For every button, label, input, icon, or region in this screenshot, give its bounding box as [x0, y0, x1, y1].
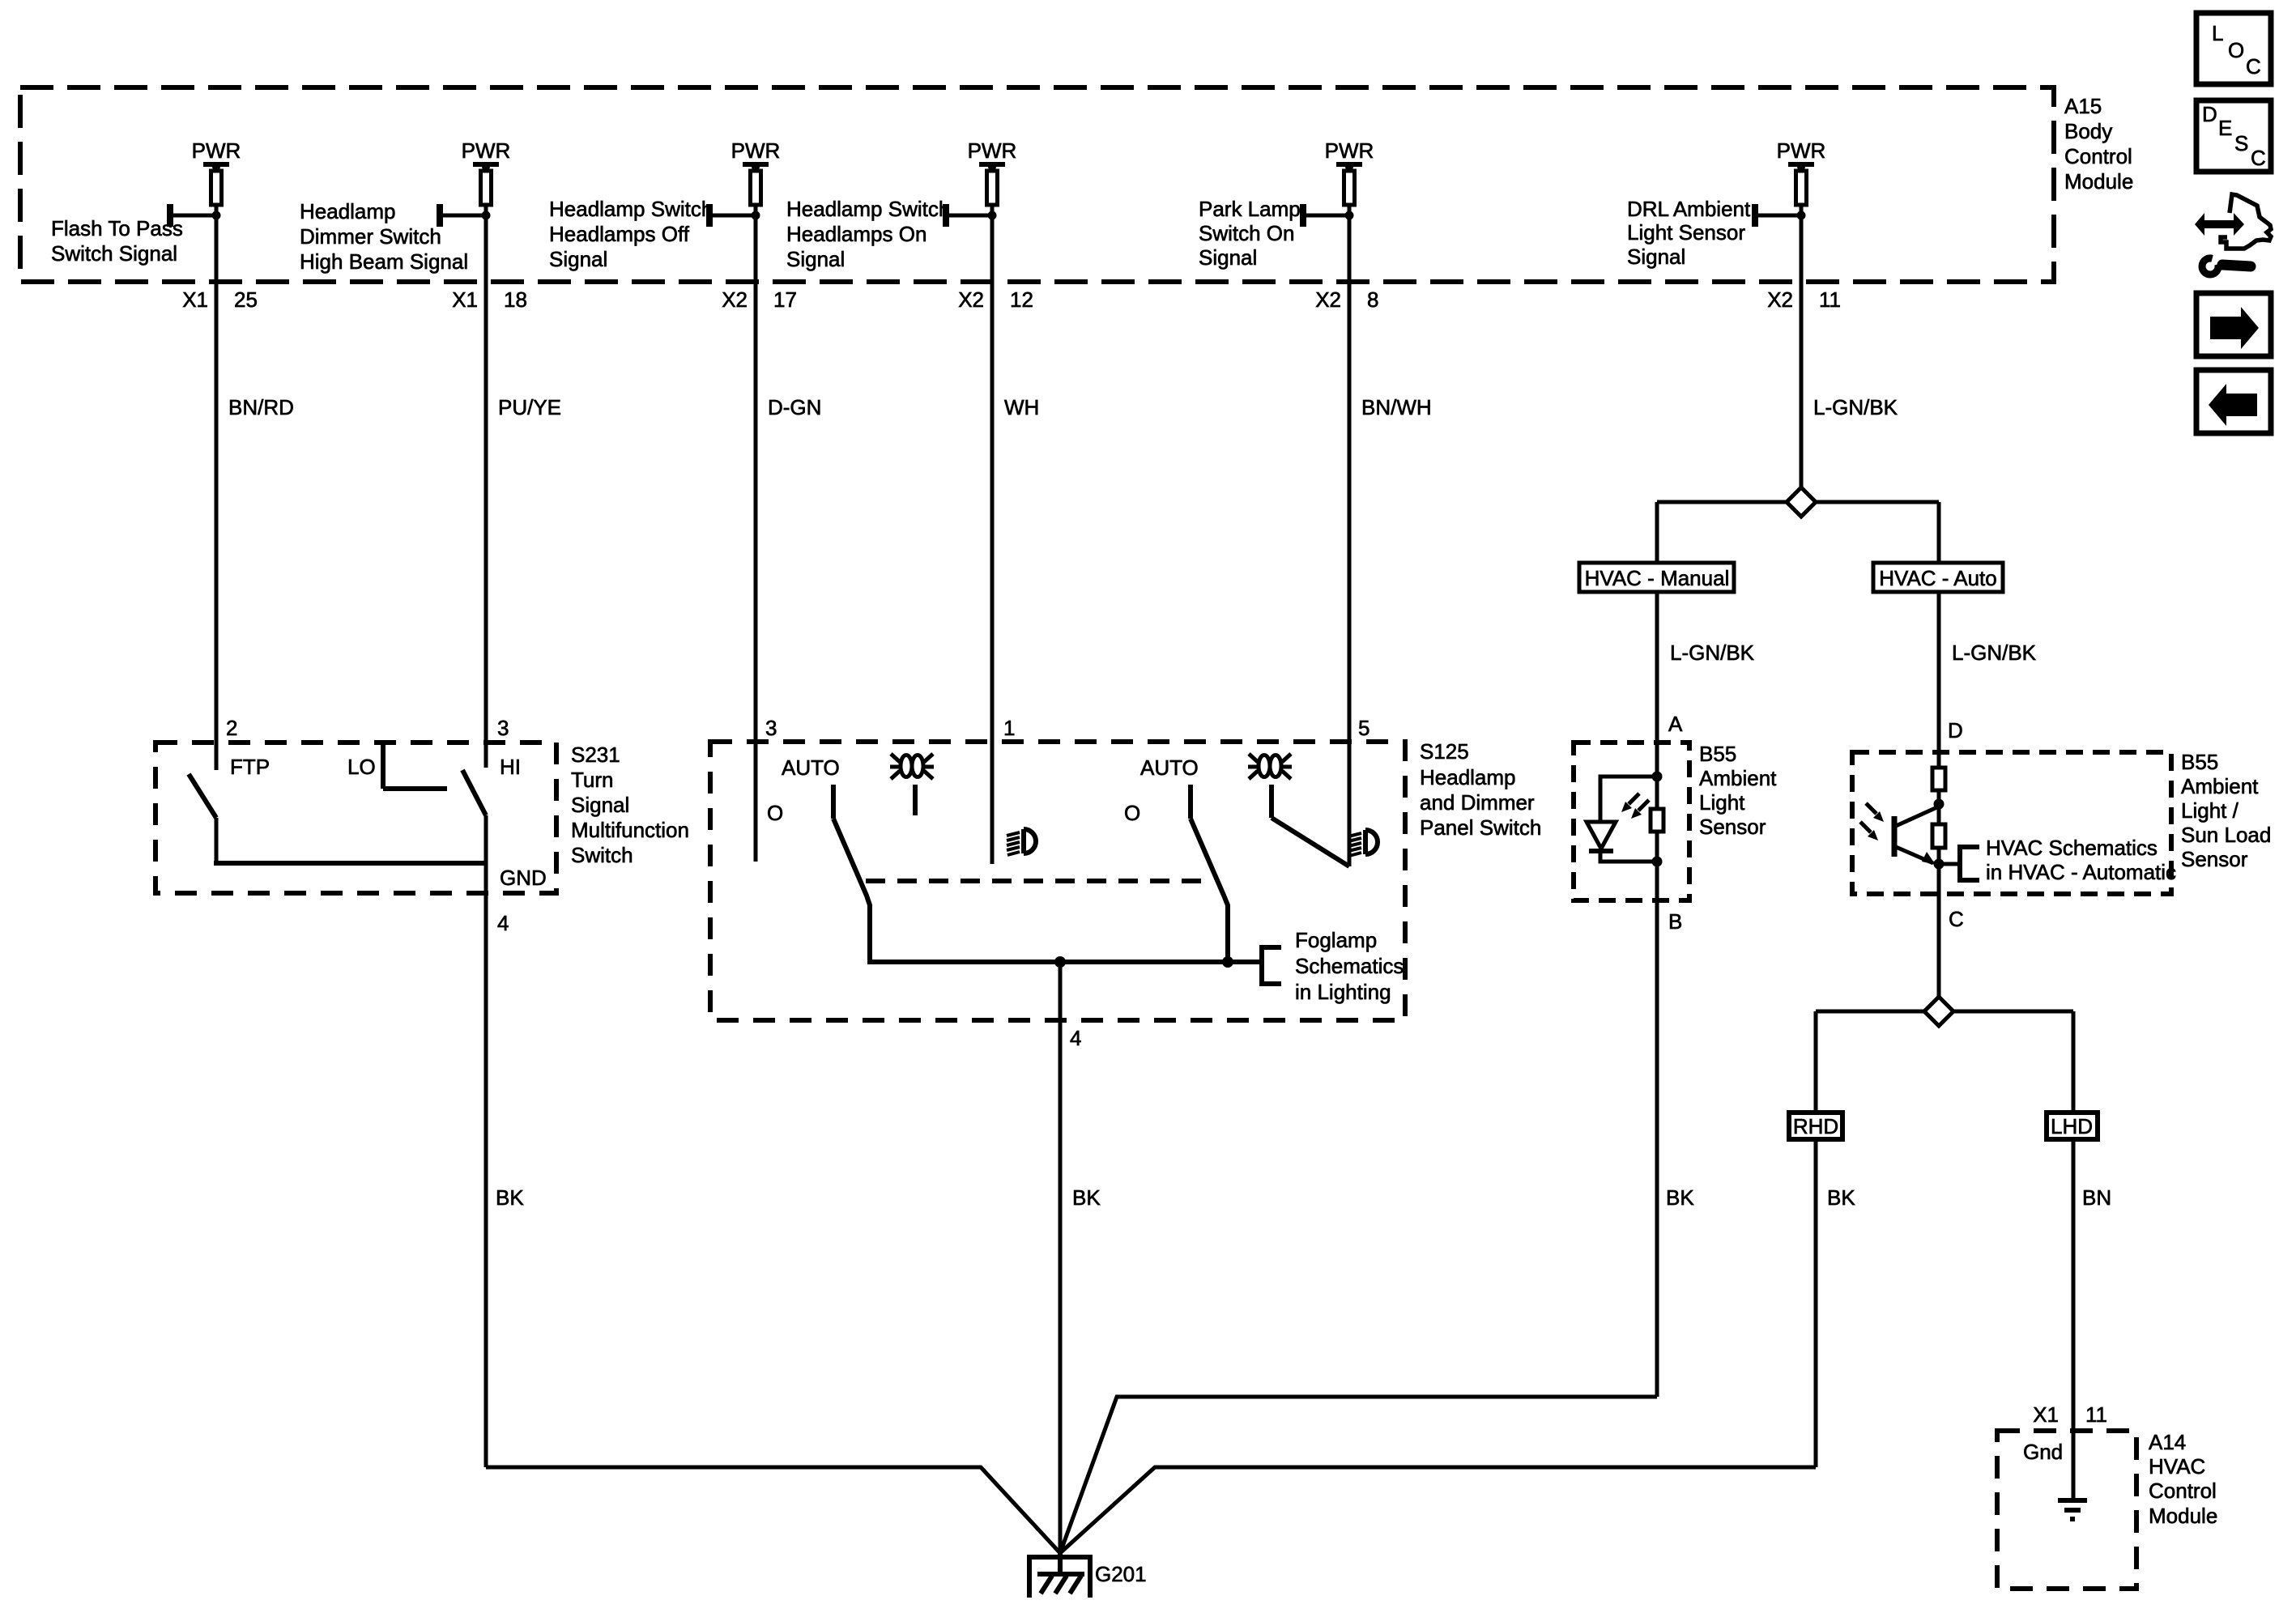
- svg-text:AUTO: AUTO: [1140, 755, 1199, 780]
- svg-text:O: O: [1124, 801, 1140, 825]
- svg-text:X2: X2: [1315, 287, 1341, 312]
- svg-text:D-GN: D-GN: [768, 395, 821, 419]
- wire B55 BK to G201: [1060, 1397, 1657, 1553]
- module box A15 Body Control Module (dashed): [20, 87, 2054, 282]
- power feed PWR column 6: [1627, 138, 1898, 491]
- svg-text:Control: Control: [2064, 144, 2132, 168]
- svg-text:B55: B55: [1699, 742, 1736, 766]
- svg-text:Headlamp: Headlamp: [1420, 765, 1516, 789]
- wire FTP pole down: [215, 818, 219, 863]
- wire common bus S125: [867, 960, 1262, 964]
- off-page bracket to HVAC Schematics: [1939, 862, 1960, 866]
- svg-text:BN/WH: BN/WH: [1361, 395, 1432, 419]
- svg-text:Signal: Signal: [1199, 245, 1257, 270]
- fuse F4: [987, 171, 998, 205]
- contact stub under parking lamp right: [1269, 785, 1274, 818]
- label B55 Ambient Light Sensor: [1699, 742, 1777, 839]
- svg-text:WH: WH: [1004, 395, 1039, 419]
- junction dot A-side top: [1652, 772, 1663, 782]
- wire c5 vertical: [1348, 205, 1352, 866]
- headlamp icon left: [1007, 829, 1036, 855]
- wire c3 vertical: [754, 205, 758, 862]
- phototransistor Q1: [1894, 806, 1939, 865]
- svg-text:C: C: [1949, 907, 1964, 931]
- icon box right arrow: [2196, 293, 2271, 356]
- wire RHD branch: [1814, 1011, 1818, 1113]
- svg-text:Sun Load: Sun Load: [2181, 823, 2271, 847]
- contact stub under parking lamp left: [913, 785, 918, 815]
- svg-text:Turn: Turn: [571, 768, 614, 792]
- svg-text:L-GN/BK: L-GN/BK: [1813, 395, 1898, 419]
- splice diamond lower: [1816, 1010, 2073, 1014]
- connector tick c4: [946, 214, 992, 218]
- svg-text:D: D: [1948, 718, 1963, 743]
- svg-text:S231: S231: [571, 743, 620, 767]
- switch blade HI (open): [462, 770, 486, 815]
- svg-text:Signal: Signal: [549, 247, 607, 271]
- junction dot pin4 bus: [1054, 956, 1066, 968]
- svg-text:E: E: [2218, 116, 2232, 140]
- switch blade parklamp to pin 5 (closed): [1272, 818, 1349, 866]
- mechanical coupling dashed link: [866, 879, 1206, 883]
- svg-text:A14: A14: [2149, 1430, 2186, 1454]
- svg-text:LHD: LHD: [2051, 1114, 2093, 1138]
- svg-text:Flash To Pass: Flash To Pass: [51, 216, 183, 240]
- contact AUTO stub right: [1188, 785, 1193, 819]
- svg-text:Headlamps On: Headlamps On: [786, 222, 926, 246]
- wire S231 BK to G201: [486, 1467, 1060, 1553]
- svg-text:Switch Signal: Switch Signal: [51, 241, 177, 266]
- photodiode D1: [1587, 822, 1616, 849]
- resistor in B55 left: [1651, 809, 1663, 832]
- svg-text:17: 17: [773, 287, 797, 312]
- svg-text:Module: Module: [2149, 1504, 2217, 1528]
- svg-text:O: O: [767, 801, 783, 825]
- svg-text:HVAC - Auto: HVAC - Auto: [1879, 566, 1996, 590]
- option tag HVAC - Auto: [1873, 563, 2003, 592]
- wire GND pin 4 down: [484, 815, 488, 1467]
- svg-text:Headlamps Off: Headlamps Off: [549, 222, 690, 246]
- junction dot right pole bus: [1222, 956, 1233, 968]
- wire left branch to B55 and down: [1655, 592, 1659, 1397]
- wire c6 vertical: [1800, 205, 1804, 491]
- svg-text:C: C: [2251, 146, 2266, 170]
- svg-text:FTP: FTP: [230, 755, 270, 779]
- svg-text:HVAC Schematics: HVAC Schematics: [1986, 836, 2158, 860]
- svg-text:LO: LO: [347, 755, 376, 779]
- wire pin 4 down to ground: [1059, 962, 1063, 1555]
- svg-text:Light Sensor: Light Sensor: [1627, 220, 1745, 245]
- svg-text:Signal: Signal: [786, 247, 845, 271]
- connector tick c6: [1755, 214, 1801, 218]
- svg-text:DRL Ambient: DRL Ambient: [1627, 197, 1751, 221]
- svg-text:Park Lamp: Park Lamp: [1199, 197, 1301, 221]
- svg-text:HI: HI: [500, 755, 521, 779]
- fuse F6: [1796, 171, 1807, 205]
- parking lamp icon left: [890, 754, 934, 779]
- sensor box B55 Ambient Light / Sun Load Sensor (dashed): [1852, 752, 2171, 894]
- svg-text:Schematics: Schematics: [1295, 954, 1404, 978]
- svg-text:L-GN/BK: L-GN/BK: [1952, 640, 2037, 665]
- svg-text:PWR: PWR: [968, 138, 1017, 163]
- svg-text:S125: S125: [1420, 739, 1469, 764]
- junction dot A-side bottom: [1652, 857, 1663, 867]
- svg-text:PWR: PWR: [731, 138, 781, 163]
- connector tick c2: [440, 214, 486, 218]
- power feed PWR column 4: [786, 138, 1039, 864]
- svg-text:X2: X2: [1767, 287, 1793, 312]
- light arrows into photodiode: [1621, 794, 1649, 819]
- svg-text:2: 2: [226, 716, 237, 740]
- icon box DESC: [2196, 100, 2271, 172]
- photodiode branch loop: [1600, 777, 1657, 862]
- off-page bracket to Foglamp Schematics: [1262, 947, 1281, 984]
- svg-text:BN: BN: [2082, 1185, 2111, 1210]
- svg-text:Sensor: Sensor: [1699, 815, 1766, 839]
- svg-text:3: 3: [765, 716, 777, 740]
- wire c2 vertical: [484, 205, 488, 768]
- svg-text:11: 11: [1819, 287, 1841, 312]
- svg-text:Body: Body: [2064, 119, 2112, 143]
- svg-text:8: 8: [1367, 287, 1378, 312]
- label B55 Ambient Light / Sun Load Sensor: [2181, 750, 2271, 871]
- svg-text:A15: A15: [2064, 94, 2102, 118]
- svg-text:High Beam Signal: High Beam Signal: [300, 249, 468, 274]
- sensor box B55 Ambient Light Sensor (dashed): [1574, 743, 1689, 900]
- svg-text:1: 1: [1003, 716, 1015, 740]
- svg-text:PWR: PWR: [192, 138, 241, 163]
- contact LO stub: [381, 743, 386, 789]
- wire S231 common to GND: [214, 861, 486, 866]
- svg-text:PWR: PWR: [462, 138, 511, 163]
- switch blade FTP (open): [189, 774, 216, 818]
- svg-text:G201: G201: [1095, 1562, 1147, 1586]
- svg-text:Gnd: Gnd: [2023, 1440, 2063, 1464]
- wire c1 vertical: [215, 205, 219, 770]
- svg-text:11: 11: [2085, 1402, 2107, 1427]
- connector tick c3: [709, 214, 756, 218]
- svg-text:AUTO: AUTO: [782, 755, 840, 780]
- switch blade right pole: [1191, 819, 1228, 962]
- option tag LHD: [2047, 1113, 2098, 1139]
- connector tick c5: [1303, 214, 1349, 218]
- svg-text:Multifunction: Multifunction: [571, 818, 689, 842]
- switch box S231 Turn Signal Multifunction Switch (dashed): [155, 743, 556, 893]
- svg-text:Signal: Signal: [1627, 245, 1685, 269]
- svg-text:B: B: [1668, 909, 1682, 934]
- svg-text:Foglamp: Foglamp: [1295, 928, 1377, 952]
- ground symbol in A14: [2058, 1500, 2087, 1519]
- svg-text:X1: X1: [2033, 1402, 2059, 1427]
- svg-text:Control: Control: [2149, 1479, 2217, 1503]
- svg-text:RHD: RHD: [1793, 1114, 1838, 1138]
- svg-text:5: 5: [1358, 716, 1370, 740]
- svg-text:Switch: Switch: [571, 843, 633, 867]
- connector tick c1: [170, 214, 216, 218]
- svg-text:BK: BK: [1666, 1185, 1694, 1210]
- svg-text:HVAC: HVAC: [2149, 1454, 2205, 1479]
- svg-text:O: O: [2228, 38, 2244, 62]
- icon box left arrow: [2196, 370, 2271, 433]
- junction dot emitter: [1934, 859, 1945, 870]
- switch blade left pole: [833, 819, 870, 962]
- svg-text:X1: X1: [182, 287, 208, 312]
- svg-text:4: 4: [1070, 1026, 1081, 1050]
- svg-text:BN/RD: BN/RD: [228, 395, 294, 419]
- option tag RHD: [1789, 1113, 1842, 1139]
- wire left branch down to HVAC-Manual: [1655, 502, 1659, 563]
- svg-text:PU/YE: PU/YE: [498, 395, 561, 419]
- svg-text:BK: BK: [1827, 1185, 1855, 1210]
- splice diamond upper: [1787, 487, 1816, 517]
- power feed PWR column 1: [51, 138, 294, 770]
- svg-text:X1: X1: [452, 287, 478, 312]
- svg-text:Light: Light: [1699, 790, 1745, 815]
- wire right branch down to diamond 2: [1937, 592, 1941, 998]
- svg-text:25: 25: [234, 287, 258, 312]
- svg-text:Dimmer Switch: Dimmer Switch: [300, 224, 441, 249]
- svg-text:Panel Switch: Panel Switch: [1420, 815, 1541, 840]
- svg-text:GND: GND: [500, 866, 547, 890]
- svg-text:B55: B55: [2181, 750, 2218, 774]
- power feed PWR column 5: [1199, 138, 1432, 866]
- icon box LOC: [2196, 13, 2271, 84]
- label A15 Body Control Module: [2064, 94, 2133, 194]
- switch box S125 Headlamp and Dimmer Panel Switch (dashed): [710, 742, 1405, 1020]
- svg-text:PWR: PWR: [1325, 138, 1374, 163]
- svg-text:X2: X2: [958, 287, 984, 312]
- light arrows into phototransistor: [1860, 803, 1884, 840]
- svg-text:Headlamp: Headlamp: [300, 199, 396, 223]
- svg-text:4: 4: [497, 911, 509, 935]
- svg-text:S: S: [2234, 131, 2248, 155]
- fuse F3: [751, 171, 761, 205]
- svg-text:A: A: [1668, 712, 1683, 736]
- svg-text:in Lighting: in Lighting: [1295, 980, 1391, 1004]
- parking lamp icon right: [1248, 754, 1292, 779]
- svg-text:Signal: Signal: [571, 793, 629, 817]
- svg-text:L: L: [2212, 21, 2223, 45]
- svg-text:Headlamp Switch: Headlamp Switch: [786, 197, 950, 221]
- svg-text:BK: BK: [496, 1185, 524, 1210]
- svg-text:PWR: PWR: [1777, 138, 1826, 163]
- svg-text:Ambient: Ambient: [2181, 774, 2259, 798]
- fuse F2: [481, 171, 492, 205]
- contact AUTO stub left: [831, 785, 836, 819]
- fuse F1: [211, 171, 222, 205]
- option tag HVAC - Manual: [1579, 563, 1734, 592]
- svg-text:3: 3: [497, 716, 509, 740]
- wire DRL split horizontal: [1657, 500, 1939, 504]
- wire RHD BK to G201: [1060, 1467, 1816, 1553]
- svg-text:C: C: [2246, 54, 2261, 79]
- module box A14 HVAC Control Module (dashed): [1997, 1431, 2136, 1589]
- svg-text:Switch On: Switch On: [1199, 221, 1295, 245]
- svg-text:Sensor: Sensor: [2181, 847, 2248, 871]
- svg-text:18: 18: [504, 287, 527, 312]
- power feed PWR column 3: [549, 138, 821, 862]
- svg-text:HVAC - Manual: HVAC - Manual: [1585, 566, 1730, 590]
- svg-text:D: D: [2202, 102, 2217, 126]
- svg-text:and Dimmer: and Dimmer: [1420, 790, 1535, 815]
- svg-text:BK: BK: [1072, 1185, 1101, 1210]
- icon car silhouette with double arrow and wrench: [2195, 194, 2271, 274]
- svg-text:Headlamp Switch: Headlamp Switch: [549, 197, 713, 221]
- svg-text:L-GN/BK: L-GN/BK: [1670, 640, 1755, 665]
- svg-text:12: 12: [1010, 287, 1033, 312]
- junction dot collector: [1934, 799, 1945, 810]
- wire right branch down to HVAC-Auto: [1937, 502, 1941, 563]
- wire LHD branch: [2072, 1011, 2076, 1113]
- svg-text:Light /: Light /: [2181, 798, 2239, 823]
- power feed PWR column 2: [300, 138, 561, 768]
- svg-text:X2: X2: [722, 287, 748, 312]
- svg-text:in HVAC - Automatic: in HVAC - Automatic: [1986, 860, 2176, 884]
- svg-text:Module: Module: [2064, 169, 2133, 194]
- fuse F5: [1344, 171, 1355, 205]
- resistor lower in B55 right: [1932, 824, 1945, 848]
- svg-text:Ambient: Ambient: [1699, 766, 1777, 790]
- ground symbol G201: [1027, 1553, 1093, 1598]
- resistor upper in B55 right: [1932, 768, 1945, 790]
- headlamp icon right: [1348, 830, 1378, 856]
- wire c4 vertical: [990, 205, 995, 864]
